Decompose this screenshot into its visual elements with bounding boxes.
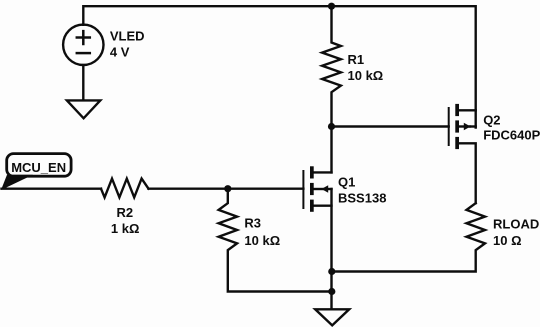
svg-text:Q1: Q1: [338, 175, 355, 190]
svg-text:MCU_EN: MCU_EN: [11, 160, 66, 175]
svg-text:RLOAD: RLOAD: [493, 217, 539, 232]
svg-text:Q2: Q2: [483, 112, 500, 127]
svg-text:R3: R3: [244, 216, 261, 231]
svg-text:10 kΩ: 10 kΩ: [348, 68, 384, 83]
svg-text:R2: R2: [117, 205, 134, 220]
svg-text:10 Ω: 10 Ω: [493, 233, 522, 248]
svg-text:FDC640P: FDC640P: [483, 127, 540, 142]
svg-text:1 kΩ: 1 kΩ: [111, 221, 139, 236]
svg-text:BSS138: BSS138: [338, 190, 386, 205]
svg-text:VLED: VLED: [110, 29, 145, 44]
svg-text:10 kΩ: 10 kΩ: [244, 233, 280, 248]
svg-text:4 V: 4 V: [110, 44, 130, 59]
svg-text:R1: R1: [348, 52, 365, 67]
